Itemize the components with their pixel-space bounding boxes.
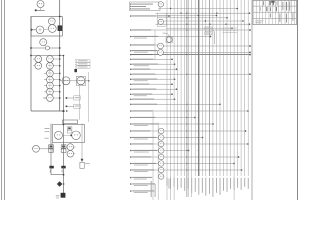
bus wire label 7 bbox=[187, 178, 190, 189]
wire leader row 12 bbox=[131, 83, 172, 85]
shutoff valve left bowtie bbox=[49, 166, 53, 169]
wire leader row 21 bbox=[131, 137, 203, 139]
junction rung lower right bbox=[59, 55, 61, 57]
instrument bubble ladder left 1 bbox=[35, 56, 42, 63]
bus wire label 11 bbox=[201, 178, 204, 193]
bus wire label 12 bbox=[204, 178, 207, 196]
bus wire 2 bbox=[170, 0, 172, 200]
drain side text bbox=[56, 194, 59, 197]
bus wire label 19 bbox=[229, 178, 232, 189]
instrument bubble top PI bbox=[37, 1, 44, 8]
signal drop from pumps into J1 bbox=[79, 86, 81, 121]
bus trunk pair dark bbox=[186, 0, 188, 197]
bus wire label 14 bbox=[212, 178, 215, 197]
wire leader row 10 bbox=[131, 73, 250, 75]
junction B1 wire bbox=[31, 29, 33, 31]
signal label row 10 bbox=[130, 73, 132, 75]
bus wire label 20 bbox=[233, 178, 236, 190]
bus wire label 6 bbox=[183, 178, 186, 191]
wire ladder right 6 to rail bbox=[53, 91, 59, 93]
bus top tie row 2 bbox=[156, 12, 250, 14]
signal label row 16 bbox=[130, 104, 132, 106]
wire tick ladder mid 1 bbox=[44, 72, 46, 74]
bus wire 24 bbox=[247, 0, 249, 176]
wire leader row 9 bbox=[131, 68, 177, 70]
junction box J1 bbox=[63, 120, 78, 123]
actuator tag text bbox=[85, 162, 90, 165]
terminal legend box rows bbox=[77, 60, 91, 63]
signal label row 23 bbox=[130, 150, 132, 152]
signal label row 17 bbox=[130, 110, 132, 112]
border left outer line bbox=[1, 0, 3, 200]
signal label row 22 bbox=[130, 143, 132, 145]
title block frame bbox=[253, 0, 297, 24]
wire ladder right 7 to rail bbox=[53, 97, 59, 99]
wire leader row 17 bbox=[131, 110, 248, 112]
tag smudges on drop left bbox=[45, 127, 50, 130]
bus wire 16 bbox=[219, 0, 221, 176]
wire leader row 15 bbox=[131, 98, 175, 100]
title block row lines bbox=[253, 5, 297, 7]
skyline text under pre-bus risers bbox=[151, 181, 152, 197]
signal label row 26 bbox=[130, 169, 132, 171]
tick near diamond bbox=[63, 183, 64, 184]
border right inner line bbox=[251, 0, 253, 200]
wire leader row 4 bbox=[131, 44, 158, 46]
wire bubbles pair ticks bbox=[74, 146, 76, 148]
junction header bbox=[63, 174, 65, 176]
loop bubble boxed bbox=[166, 36, 173, 43]
signal label row 24 bbox=[130, 156, 132, 158]
signal line to actuator bbox=[81, 124, 83, 159]
skyline labels far left group bbox=[168, 179, 171, 189]
long dark leader row6 emphasis bbox=[131, 54, 250, 56]
instrument bubble pair right upper bbox=[67, 144, 74, 151]
bus wire label 8 bbox=[190, 178, 193, 193]
pipe drop left to header bbox=[50, 167, 52, 175]
wire leader row 24 bbox=[131, 156, 239, 158]
bus wire 17 bbox=[223, 0, 225, 176]
junction dots on leaders bbox=[186, 29, 187, 30]
bus wire 6 bbox=[184, 0, 186, 176]
title block column lines bbox=[255, 0, 257, 24]
signal label row 28 bbox=[130, 183, 132, 185]
wire ladder right 2 to rail bbox=[53, 65, 59, 67]
notes box entry 3 bbox=[130, 8, 131, 9]
bus wire label 16 bbox=[219, 178, 222, 195]
loop bubble mid A bbox=[158, 43, 164, 49]
wire skid internal bbox=[63, 134, 72, 136]
bus wire 12 bbox=[205, 0, 207, 176]
bus wire label 15 bbox=[215, 178, 218, 193]
wire tick ladder left 2 bbox=[33, 65, 35, 67]
transmitter tag upper bbox=[74, 96, 80, 100]
signal label row 25 bbox=[130, 163, 132, 165]
bus wire label 21 bbox=[236, 178, 239, 188]
instrument bubble field FT bbox=[33, 145, 40, 152]
bus wire label 17 bbox=[222, 178, 225, 191]
wire FT to valve line bbox=[39, 148, 48, 150]
loop bubble bottom 6 bbox=[158, 161, 164, 167]
signal label row 2 bbox=[130, 29, 132, 31]
wire leader row 25 bbox=[131, 163, 234, 165]
transmitter tag lower bbox=[74, 104, 80, 108]
wire ladder right 3 to rail bbox=[53, 72, 59, 74]
wire leader row 26 bbox=[131, 169, 242, 171]
tap end tick bbox=[35, 9, 37, 11]
instrument bubble B1 upper right bbox=[48, 18, 55, 25]
signal label row 11 bbox=[130, 78, 132, 80]
pipe drop right bbox=[63, 56, 65, 168]
signal label row 29 bbox=[130, 190, 132, 192]
title block revision marks bbox=[270, 1, 271, 5]
hook wire to boxed bubble bbox=[163, 33, 170, 37]
junction rung upper right bbox=[59, 47, 61, 49]
wire ladder right 5 to rail bbox=[53, 85, 59, 87]
instrument bubble pump left bbox=[62, 77, 70, 85]
junction rail lower bbox=[59, 97, 61, 99]
actuator arrowhead bbox=[81, 159, 84, 162]
wire tick ladder mid 4 bbox=[44, 91, 46, 93]
signal label row 1 bbox=[130, 15, 132, 17]
wire leader row 18 bbox=[131, 117, 195, 119]
wire bubble link B1 bbox=[51, 24, 53, 26]
notes box entry 1 bbox=[130, 3, 131, 4]
signal label row 12 bbox=[130, 83, 132, 85]
loop bubble top A bbox=[158, 2, 163, 7]
bus wire label 23 bbox=[243, 178, 246, 187]
bus wire 22 bbox=[240, 0, 242, 176]
instrument bubble ladder left 2 bbox=[35, 62, 42, 69]
bus wire 23 bbox=[244, 0, 246, 176]
terminal strip box top bbox=[157, 13, 166, 26]
main pipe right rail bbox=[59, 0, 61, 111]
junction drop at bottom run bbox=[63, 110, 65, 112]
wire leader row 7 bbox=[131, 58, 172, 60]
terminal dark block under legend bbox=[74, 69, 77, 72]
drain block dark bbox=[61, 193, 66, 198]
bus wire 1 bbox=[166, 0, 168, 200]
bus wire label 5 bbox=[180, 178, 183, 188]
wire top tap bbox=[35, 9, 45, 11]
junction rung lower left bbox=[30, 55, 32, 57]
bus wire label 24 bbox=[247, 178, 250, 189]
signal label row 20 bbox=[130, 130, 132, 132]
pipe bottom run bbox=[31, 110, 64, 112]
instrument bubble ladder right 2 bbox=[47, 62, 54, 69]
bus wire label 1 bbox=[166, 178, 169, 186]
control valve on rung bbox=[45, 46, 49, 50]
skid box outline bbox=[53, 125, 85, 143]
pipe drop right to drain bbox=[63, 167, 65, 193]
junction rung upper left bbox=[30, 47, 32, 49]
signal label row 6 bbox=[130, 54, 132, 56]
wire tap lower bubble bbox=[43, 97, 47, 99]
terminal block dark B1 bbox=[58, 25, 63, 31]
bus wire 7 bbox=[187, 0, 189, 176]
signal label row 19 bbox=[130, 123, 132, 125]
wire ladder bubbles column join bbox=[49, 62, 51, 95]
wire leader row 13 bbox=[131, 88, 177, 90]
bottom header wire bbox=[51, 174, 64, 176]
instrument bubble skid left bbox=[55, 131, 63, 139]
wire bubble to valve bbox=[45, 45, 47, 47]
hook wire drop mid bus bbox=[212, 30, 214, 44]
bus wire 19 bbox=[230, 0, 232, 176]
wire mid bubbles leaders bbox=[163, 45, 250, 47]
notes box leader bbox=[160, 3, 164, 5]
pipe drop left pair bbox=[50, 124, 52, 168]
bus wire 4 bbox=[177, 0, 179, 176]
square case around right bubble bbox=[76, 76, 85, 85]
wire leader row 14 bbox=[131, 93, 172, 95]
notes box top bbox=[130, 2, 161, 11]
instrument bubble ladder right 3 bbox=[47, 70, 54, 77]
riser short top bbox=[154, 30, 156, 60]
loop bubble top B bbox=[158, 19, 163, 24]
wire into B1 bbox=[31, 29, 36, 31]
instrument bubble pump right bbox=[77, 77, 85, 85]
wire leader row 22 bbox=[131, 143, 248, 145]
instrument bubble B1 lower right bbox=[48, 25, 56, 33]
signal label row 8 bbox=[130, 63, 132, 65]
shutoff valve right bowtie bbox=[61, 166, 65, 169]
bus wire label 10 bbox=[197, 178, 200, 195]
signal label row 5 bbox=[130, 50, 132, 52]
loop bubble bottom 5 bbox=[158, 154, 164, 160]
loop bubble bottom 3 bbox=[158, 141, 164, 147]
bus wire label 18 bbox=[226, 178, 229, 192]
bus top tie row 7 bbox=[166, 27, 232, 29]
bus wire 3 bbox=[173, 0, 175, 200]
instrument bubble ladder right 4 bbox=[47, 76, 54, 83]
main pipe left rail bbox=[30, 17, 32, 112]
wire FT tick bbox=[31, 148, 34, 150]
wire tick ladder mid 2 bbox=[44, 79, 46, 81]
title block vertical text entries bbox=[286, 2, 287, 11]
wire leader row 6 bbox=[131, 54, 250, 56]
flow diamond bbox=[57, 181, 63, 187]
wire leader row 3 bbox=[131, 36, 211, 38]
loop bubble bottom 1 bbox=[158, 128, 164, 134]
bus wire label 22 bbox=[240, 178, 243, 190]
valve stem labels bbox=[50, 170, 51, 173]
wire tick ladder mid 3 bbox=[44, 85, 46, 87]
wire leader row 8 bbox=[131, 63, 175, 65]
wire leader row 20 bbox=[131, 130, 246, 132]
signal label row 3 bbox=[130, 36, 132, 38]
instrument bubble B1 left bbox=[36, 26, 44, 34]
instrument bubble above rung bbox=[40, 39, 47, 46]
junction skid bbox=[70, 134, 72, 136]
bus wire 21 bbox=[237, 0, 239, 176]
bus top tie row 6 bbox=[156, 23, 250, 25]
bus wire label 2 bbox=[169, 178, 172, 189]
junction dots top grid bbox=[170, 8, 171, 9]
junction rail B1 bbox=[59, 29, 61, 31]
bus wire 8 bbox=[191, 0, 193, 197]
wire leader row 16 bbox=[131, 103, 220, 105]
bus top tie row 5 bbox=[164, 20, 244, 22]
bus stub ties upper right bbox=[223, 27, 238, 29]
bus top tie row 1 bbox=[158, 8, 237, 10]
loop bubble bottom 7 bbox=[158, 167, 164, 173]
wire leader row 1 bbox=[131, 15, 169, 17]
wire rung lower bbox=[31, 55, 64, 57]
panel box B1 bbox=[31, 17, 62, 37]
wire ladder right 4 to rail bbox=[53, 79, 59, 81]
bus top tie row 4 bbox=[157, 17, 227, 19]
instrument bubble ladder right 1 bbox=[47, 56, 54, 63]
bus wire label 3 bbox=[173, 178, 176, 187]
bus wire 11 bbox=[201, 0, 203, 176]
bus wire 18 bbox=[226, 0, 228, 176]
bus wire 13 bbox=[208, 0, 210, 176]
loop bubble mid B bbox=[158, 50, 164, 56]
junction rail top bbox=[59, 16, 61, 18]
relay rects inside skid bbox=[67, 127, 72, 130]
bus trunk pair dark 2 bbox=[197, 0, 199, 176]
riser wire pre-bus B bbox=[157, 123, 159, 201]
wire leader row 19 bbox=[131, 123, 213, 125]
riser wire pre-bus A bbox=[152, 112, 154, 200]
wire tick ladder mid 5 bbox=[44, 97, 46, 99]
wire tag lower arrow bbox=[67, 105, 74, 107]
signal label row 21 bbox=[130, 137, 132, 139]
wire tag upper arrow bbox=[67, 97, 74, 99]
wire leader row 23 bbox=[131, 150, 189, 152]
border left inner line bbox=[4, 0, 6, 200]
signal label row 15 bbox=[130, 98, 132, 100]
bus wire 5 bbox=[180, 0, 182, 176]
wire ladder right 1 to rail bbox=[53, 58, 59, 60]
bus wire 20 bbox=[233, 0, 235, 200]
wire leader row 5 bbox=[131, 50, 158, 52]
bus top tie row 3 bbox=[157, 15, 217, 17]
junction drop top bbox=[63, 55, 65, 57]
junction pump row right bbox=[88, 80, 90, 82]
signal label row 7 bbox=[130, 59, 132, 61]
instrument bubble ladder right 6 bbox=[47, 88, 54, 95]
bus wire 9 bbox=[194, 0, 196, 176]
signal label row 13 bbox=[130, 88, 132, 90]
border right outer line bbox=[297, 0, 299, 200]
instrument bubble skid right bbox=[72, 131, 81, 140]
signal label row 27 bbox=[130, 177, 132, 179]
loop bubble bottom 8 bbox=[158, 174, 164, 180]
wire rung upper bbox=[31, 47, 60, 49]
instrument bubble ladder right 5 bbox=[47, 82, 54, 89]
signal label row 4 bbox=[130, 44, 132, 46]
signal label row 9 bbox=[130, 68, 132, 70]
instrument bubble pair right lower bbox=[67, 151, 74, 158]
wire leader row 2 bbox=[131, 29, 250, 31]
valve block stack right bbox=[61, 145, 66, 148]
valve block stack left bbox=[49, 145, 54, 148]
cable tag small boxes on row2 bbox=[205, 27, 212, 30]
wire pump row bbox=[60, 80, 89, 82]
dashed signal wire to legend bbox=[75, 60, 77, 70]
bus wire label 4 bbox=[176, 178, 179, 190]
wire stem from top bubble bbox=[40, 8, 42, 11]
bus wire label 13 bbox=[208, 178, 211, 194]
notes box entry 2 bbox=[130, 6, 131, 7]
instrument bubble ladder right 7 bbox=[47, 95, 54, 102]
bus wire label 9 bbox=[194, 178, 197, 192]
loop bubble bottom 2 bbox=[158, 135, 164, 141]
signal riser right of pumps bbox=[88, 72, 90, 122]
signal label row 18 bbox=[130, 117, 132, 119]
loop bubble bottom 4 bbox=[158, 148, 164, 154]
signal label row 14 bbox=[130, 93, 132, 95]
bus wire 10 bbox=[198, 0, 200, 176]
bus wire 15 bbox=[215, 0, 217, 176]
actuator box bbox=[80, 162, 84, 168]
wire tick ladder left 1 bbox=[33, 58, 35, 60]
bus wire 14 bbox=[212, 0, 214, 176]
junction marks under run bbox=[63, 110, 65, 112]
wire leader row 11 bbox=[131, 78, 175, 80]
